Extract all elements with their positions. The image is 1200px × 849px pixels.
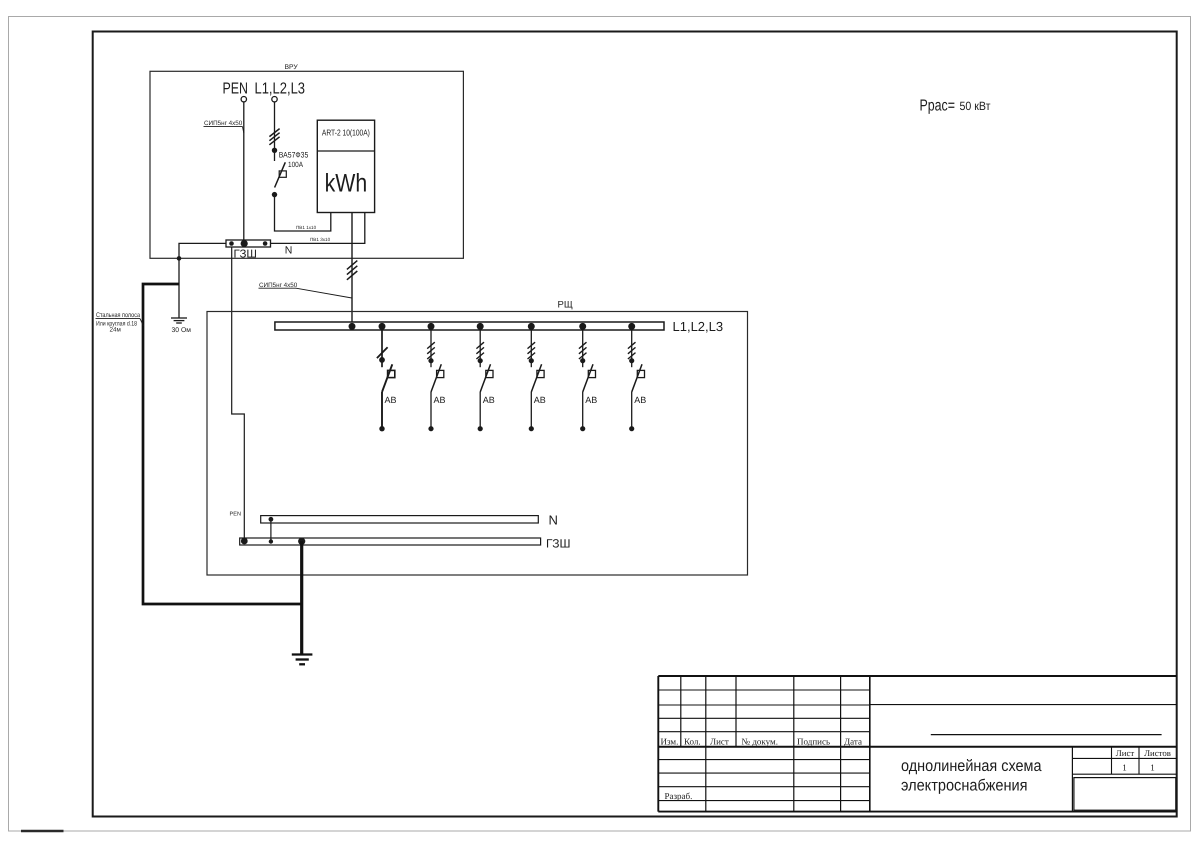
list cell lines [1071,747,1073,812]
svg-text:Изм.: Изм. [661,737,679,747]
svg-text:АВ: АВ [585,395,597,405]
svg-text:РЩ: РЩ [558,300,573,311]
junction bus tap 6 [628,323,635,330]
svg-text:30 Ом: 30 Ом [172,327,192,334]
junction bus tap 3 [477,323,484,330]
svg-text:СИП5нг 4x50: СИП5нг 4x50 [204,120,243,127]
wire N to GZSh [270,519,272,541]
label SIP cable 2 [259,282,352,298]
junction N bus [269,517,274,522]
svg-text:АВ: АВ [385,395,397,405]
title block column lines [680,676,682,747]
svg-text:100А: 100А [288,160,304,169]
svg-text:№ докум.: № докум. [742,737,779,747]
breaker AV1 [377,330,397,431]
ground electrode bottom [292,655,313,665]
breaker AV2 [427,330,445,431]
svg-text:АВ: АВ [634,395,646,405]
junction bus tap 4 [528,323,535,330]
svg-text:Лист: Лист [1116,748,1135,758]
svg-text:N: N [549,513,558,528]
earthing conductor thick [143,284,302,604]
svg-text:L1,L2,L3: L1,L2,L3 [673,319,724,334]
bus L1L2L3 [275,322,664,330]
name underline [931,734,1162,736]
svg-text:L1,L2,L3: L1,L2,L3 [255,81,306,98]
junction PEN entry [241,538,248,545]
bus N lower [261,516,539,523]
svg-text:Ppac=: Ppac= [920,98,956,115]
svg-text:ПВ1 3х10: ПВ1 3х10 [310,237,331,242]
svg-text:Лист: Лист [710,737,729,747]
junction on frame [177,256,182,261]
wire bus to earth [179,243,226,318]
wire breaker to meter [275,195,331,231]
wire L vertical [274,102,276,161]
terminal PEN [241,97,246,102]
svg-text:50 кВт: 50 кВт [960,99,991,113]
svg-text:Дата: Дата [844,737,862,747]
wire meter N down [271,213,365,244]
svg-text:ART-2 10(100A): ART-2 10(100A) [322,127,370,137]
breaker AV6 [628,330,646,431]
svg-text:Кол.: Кол. [684,737,701,747]
bus GZSh lower [240,538,541,545]
svg-text:1: 1 [1122,763,1127,773]
svg-text:ГЗШ: ГЗШ [234,249,257,261]
svg-text:ВРУ: ВРУ [285,64,299,71]
box RSh [207,312,748,576]
svg-text:PEN: PEN [230,512,242,518]
bottom-left tick [21,830,64,833]
three-phase slashes [269,129,279,145]
three-phase slashes [347,261,357,280]
svg-text:24м: 24м [110,327,121,334]
svg-text:АВ: АВ [534,395,546,405]
label SIP cable 1 [204,120,244,133]
bus GZSh top [226,240,271,247]
earthing down conductor [300,541,303,654]
svg-text:kWh: kWh [325,170,368,198]
svg-text:ПВ1 1х10: ПВ1 1х10 [296,225,317,230]
svg-text:Подпись: Подпись [797,737,830,747]
svg-text:N: N [285,244,293,256]
svg-text:ВА57Ф35: ВА57Ф35 [279,151,309,160]
breaker AV4 [528,330,546,431]
svg-text:АВ: АВ [483,395,495,405]
ground electrode 30 Om [171,318,187,323]
svg-text:однолинейная схема: однолинейная схема [901,757,1042,775]
junction bus tap 1 [379,323,386,330]
label steel strip [96,312,144,334]
right section top line [870,704,1177,706]
junction earthing conductor [298,538,305,545]
junction bus tap 2 [428,323,435,330]
svg-text:Стальная полоса: Стальная полоса [96,312,140,319]
breaker QF VA57F35 [272,151,309,198]
svg-text:электроснабжения: электроснабжения [901,776,1028,794]
box VRU [150,71,463,258]
bottom right cell [1074,778,1176,811]
svg-text:Разраб.: Разраб. [665,791,693,801]
svg-text:PEN: PEN [223,81,249,98]
wire PEN to lower GZSh [232,247,245,538]
svg-text:ГЗШ: ГЗШ [546,537,570,551]
junction feed [349,323,356,330]
svg-text:1: 1 [1150,763,1155,773]
title block row lines [658,689,870,691]
title block [658,676,1176,812]
junction GZSh [269,539,273,543]
svg-text:Листов: Листов [1144,748,1171,758]
title block outer [658,675,1176,677]
meter U1 kWh [317,120,374,212]
breaker AV3 [476,330,494,431]
breaker AV5 [579,330,597,431]
wire PEN vertical [243,102,245,241]
junction bus tap 5 [579,323,586,330]
terminal L [272,97,277,102]
junction [272,148,277,153]
wire meter to bus L [351,213,353,324]
svg-text:АВ: АВ [434,395,446,405]
